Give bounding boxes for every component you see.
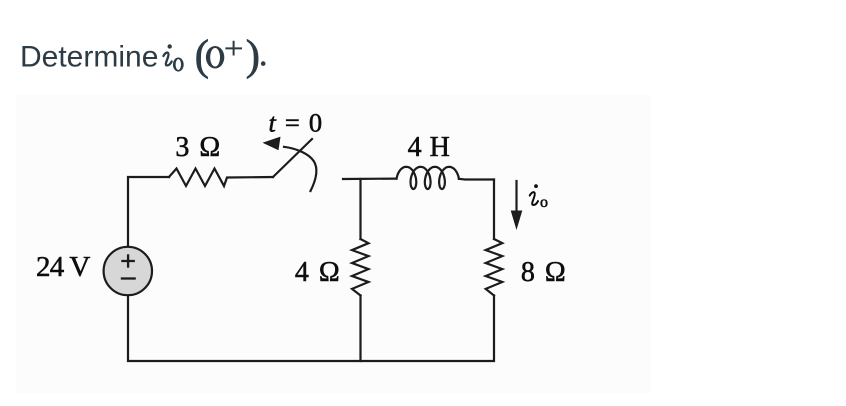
svg-text:8 Ω: 8 Ω xyxy=(521,257,567,288)
svg-text:): ) xyxy=(246,32,260,80)
svg-text:4 Ω: 4 Ω xyxy=(295,257,341,288)
svg-text:4 H: 4 H xyxy=(408,132,451,163)
svg-text:t = 0: t = 0 xyxy=(269,108,324,138)
svg-text:Determine: Determine xyxy=(20,41,158,74)
svg-text:3 Ω: 3 Ω xyxy=(175,132,221,163)
svg-text:24 V: 24 V xyxy=(36,251,90,283)
svg-text:o: o xyxy=(540,194,548,211)
